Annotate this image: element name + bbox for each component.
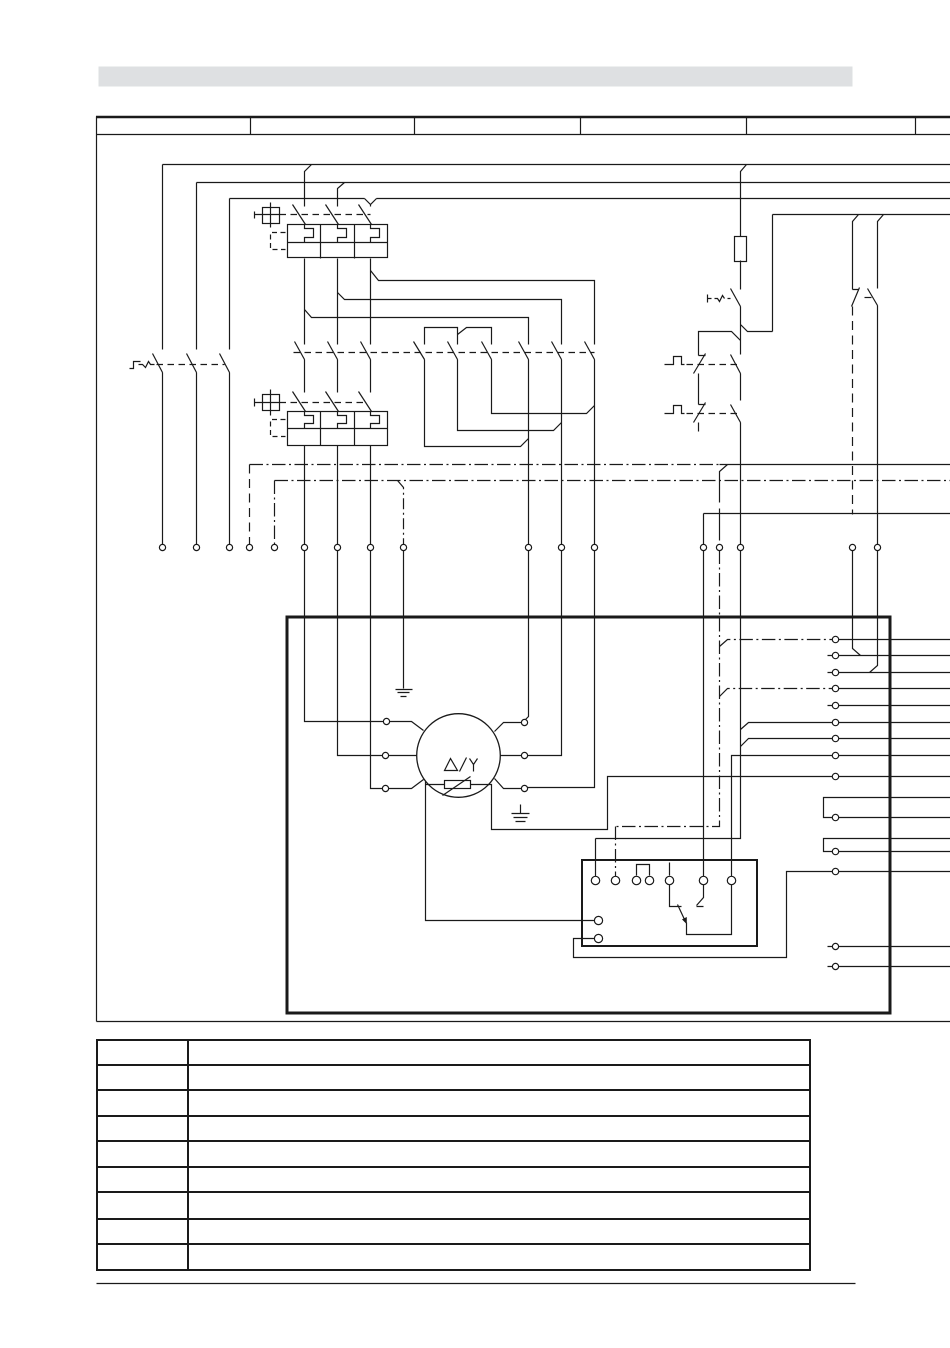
dash-dot branch line B to PE terminal [398,481,404,545]
wire line13 stub and edge [828,946,950,948]
breaker QA3 thermal element pole3 [371,412,380,429]
wire QA1 pole3 down to contactor QA2 [370,259,372,345]
motor PTC thermistor [445,781,471,789]
wire line12 to edge [839,871,950,873]
wire QA2 pole2 to breaker QA3 [337,360,339,393]
contactor linkage dashes row [294,352,595,354]
changeover alternate contact from T6 [697,885,704,907]
breaker QA1 pole 1 contact [293,205,306,225]
main switch QB1 pole 2 [187,354,197,373]
contact c3 [482,342,492,360]
wire terminal 7 into box to motor V1 [338,551,383,756]
header column separator 1 [250,117,252,135]
terminal box circle T6 [699,876,707,884]
breaker QA1 pole 2 contact [326,205,339,225]
pressure NO contact 1 (right) [731,355,741,374]
dash-dot boundary line B [275,480,950,482]
dashed drop line A left end to terminal [249,465,251,545]
drop from line A to terminal 719 [720,465,728,541]
wire fuse to switch [740,261,742,290]
wire terminal 6 into box to motor U1 [305,551,384,722]
wire line2 stub and edge [828,655,950,657]
junction circle line6 [832,719,838,725]
auxiliary pair linkage dash [865,297,872,299]
junction circle line11 [832,848,838,854]
terminal box circle T1 [591,876,599,884]
contact c1 top bridge [425,328,458,345]
wire line4 to edge [839,688,950,690]
branch wire to pressure chain left [699,332,741,356]
junction circle line8 [832,752,838,758]
pressure switch actuator 2 [665,406,685,414]
terminal box circle T8 [594,916,602,924]
motor terminal V2 [521,752,527,758]
fuse branch from feeder1 [741,165,747,237]
frame bottom border [97,1021,950,1023]
header grey bar [99,67,853,87]
wire terminal 10 into box to motor V2 [528,551,562,756]
junction circle line7 [832,735,838,741]
wire line11 to edge [839,851,950,853]
wire T5 stub above [669,863,671,876]
terminal box circle T5 [665,876,673,884]
pressure NC contact 1 (left) [694,354,706,374]
wire terminal 8 into box to motor W1 [371,551,383,789]
contactor QA2 pole 2 [328,342,338,360]
junction circle line4 [832,685,838,691]
wire QA3 pole2 to terminal [337,446,339,545]
contact c1 [414,342,425,360]
junction circle line3 [832,669,838,675]
wire line1 to edge [839,639,950,641]
terminal box circle T2 [611,876,619,884]
wire between pressure levels right [740,374,742,401]
junction circle line13 [832,943,838,949]
feeder wire L1 (top horizontal) [163,164,950,166]
breaker QA3 body box [288,412,388,446]
terminal box [582,860,757,946]
branch to line 7 [741,739,833,747]
wire line8 to edge [839,755,950,757]
wire L2 drop to main switch [196,183,198,350]
wire below NO contact to terminal [877,306,879,545]
wire c4 to terminal [528,360,530,545]
manual switch actuator [708,295,731,303]
dash-dot drop line B left end to terminal [274,481,276,545]
wire QB1 pole2 to terminal 2 [196,373,198,545]
solid line A continuation right [720,464,950,466]
wire QA1 pole1 down to contactor QA2 [304,259,306,345]
wire line7 to edge [839,738,950,740]
junction circle line1 [832,636,838,642]
wire line10 to edge [839,817,950,819]
wire U2 to motor edge [495,723,522,732]
pressure NC contact 2 (left) [694,403,706,423]
frame left border [96,117,98,1022]
wire QA1 pole1 branch to contact c4 [305,310,529,345]
motor terminal U2 [521,719,527,725]
contactor QA2 pole 3 [361,342,371,360]
header column separator 3 [580,117,582,135]
PTC wire right to sensor line [471,777,833,830]
motor body circle [417,714,501,798]
contact c2 [448,342,458,360]
wire line6 to edge [839,722,950,724]
breaker QA1 thermal element pole2 [338,225,347,243]
breaker QA1 thermal element pole1 [305,225,314,243]
auxiliary NO contact (right) [868,289,878,306]
motor delta/wye marking [445,758,478,772]
breaker QA3 linkage dashes [280,402,367,404]
wire c6 to terminal [594,360,596,545]
changeover common wire to T7 [687,885,732,935]
footer rule [97,1283,856,1285]
terminal box circle T9 [594,934,602,942]
junction circle line2 [832,652,838,658]
wire terminal 877 to line 3 [870,551,878,673]
motor terminal W2 [521,785,527,791]
wire branch feeder2 to breaker QA1 pole2 [338,183,345,207]
wire branch feeder3 to breaker QA1 pole3 [365,199,377,207]
breaker QA1 dashed coupling bracket [271,233,286,250]
motor chassis ground symbol [512,805,530,822]
junction circle line10 [832,814,838,820]
breaker QA1 thermal element pole3 [371,225,380,243]
wire W1 to motor edge [389,780,424,789]
breaker QA3 thermal element pole2 [338,412,347,429]
main switch QB1 linkage dashes [157,364,225,366]
main switch QB1 pole 3 [220,354,230,373]
breaker QA3 dashed coupling bracket [271,420,286,437]
machine enclosure box [287,617,890,1013]
wire switch down with branch to bus riser [741,215,773,355]
wire pressure chain right to terminal [740,423,742,545]
contact c6 [585,342,595,360]
wire L3 drop to main switch [229,199,231,350]
contact c4 [519,342,529,360]
frame top border [96,116,950,119]
wire L1 drop to main switch [162,165,164,350]
feeder wire L2 [197,182,950,184]
contact c5 [552,342,562,360]
wire W2 to motor edge [495,779,522,789]
wire QA3 pole1 to terminal [304,446,306,545]
feeder wire L3 [230,198,950,200]
wire line3 stub and edge [828,672,950,674]
wire c2 bottom loop to c5 [458,360,562,431]
motor terminal U1 [383,718,389,724]
wire terminal 9 into box to motor U2 [526,551,529,720]
wire terminal 852 to line 2 [853,551,861,656]
control wire y513 to right edge [704,513,950,515]
motor terminal W1 [382,785,388,791]
drop control wire to terminal 703 [703,514,705,545]
auxiliary NC contact (left) [852,288,860,307]
wire terminal 740 into box [596,551,741,877]
PTC wire left to terminal box T8 [426,782,595,921]
junction circle line9 [832,773,838,779]
frame header row bottom line [97,134,950,136]
ground symbol PE [396,690,413,697]
dash-dot branch to line 1 [720,640,833,647]
dash-dot sensor bus from terminal 719 [616,551,720,877]
pressure switch linkage dashes 1 [687,364,739,366]
header column separator 4 [746,117,748,135]
header column separator 5 [915,117,917,135]
branch bus to contact 852 [853,215,859,290]
breaker QA3 pole 3 contact [359,392,372,412]
main switch QB1 handle [130,362,155,369]
stub below pressure chain left [698,423,700,432]
contact c2 to c3 top bridge [458,328,492,345]
changeover blade with arrow [678,905,685,920]
changeover fixed contact from T5 [670,885,682,907]
wire c5 to terminal [561,360,563,545]
wire V1 to motor edge [389,755,417,757]
terminal box circle T4 [645,876,653,884]
breaker QA1 pole 3 contact [359,205,372,225]
breaker QA3 pole 1 contact [293,392,306,412]
breaker QA1 test button [263,208,280,224]
terminal box circle T7 [727,876,735,884]
bottom data table [97,1040,810,1270]
wire c3 bottom loop to c6 [492,360,595,414]
jumper bracket line11 [824,839,950,852]
wire QA3 pole3 to terminal [370,446,372,545]
wire line5 stub and edge [828,705,950,707]
wire branch feeder1 to breaker QA1 pole1 [305,165,312,207]
bridge T3-T4 [637,865,650,876]
terminal box circle T3 [632,876,640,884]
pressure NO contact 2 (right) [731,405,741,423]
dash-dot branch to line 4 [720,689,833,697]
fuse FC1 [735,237,747,262]
breaker QA3 test button [263,395,280,411]
junction circle line12 [832,868,838,874]
manual switch contact [731,289,741,307]
branch bus to contact 877 [878,215,884,289]
top bus wire y215 [773,214,950,216]
wire U1 to motor edge [390,722,424,731]
wire line 8 from T7 riser [732,756,833,877]
wire between pressure levels left [698,374,700,405]
breaker QA1 linkage dashes [280,214,371,216]
wire QA1 pole2 down to contactor QA2 [337,259,339,345]
jumper bracket line10 [824,798,950,818]
dash-dot boundary line A [250,464,720,466]
wire QB1 pole3 to terminal 3 [229,373,231,545]
wire c1 bottom loop to c4 [425,360,529,447]
junction circle line5 [832,702,838,708]
wire PE terminal into box [403,551,405,689]
wire QA1 pole3 branch to contact c6 [371,271,595,345]
dashed option wire below NC contact [852,307,854,515]
wire terminal 703 to T6 [703,551,705,877]
main switch QB1 pole 1 [153,354,163,373]
breaker QA3 pole 2 contact [326,392,339,412]
breaker QA1 body box [288,225,388,258]
wire line14 stub and edge [828,966,950,968]
main terminal strip row [159,544,880,550]
wire line9 to edge [839,776,950,778]
wire QA1 pole2 branch to contact c5 [338,293,562,345]
wire terminal 11 into box to motor W2 [528,551,595,788]
motor terminal V1 [382,752,388,758]
junction circle line14 [832,963,838,969]
wire T9 to line12 [574,872,833,958]
contactor QA2 pole 1 [295,342,305,360]
breaker QA3 thermal element pole1 [305,412,314,429]
wire V2 to motor edge [501,755,522,757]
wire QB1 pole1 to terminal 1 [162,373,164,545]
pressure switch linkage dashes 2 [687,413,739,415]
wire QA2 pole1 to breaker QA3 [304,360,306,393]
header column separator 2 [414,117,416,135]
pressure switch actuator 1 [665,357,685,365]
branch to line 6 [741,723,833,730]
wire QA2 pole3 to breaker QA3 [370,360,372,393]
